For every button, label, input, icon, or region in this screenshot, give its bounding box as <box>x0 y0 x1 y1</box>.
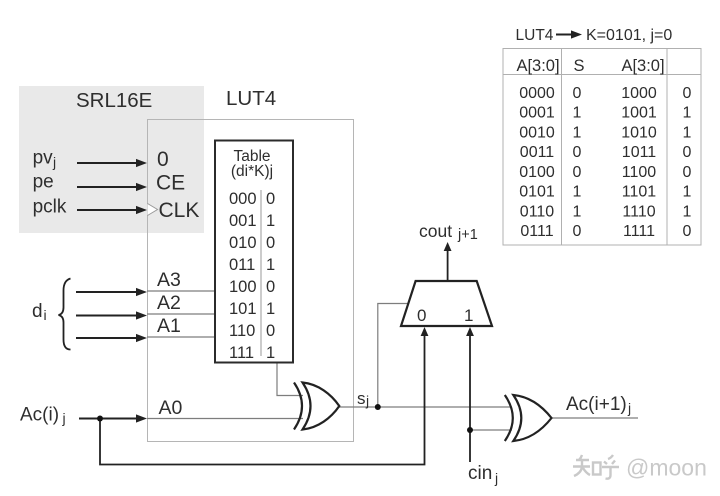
svg-text:0: 0 <box>683 164 692 181</box>
svg-text:0011: 0011 <box>520 144 555 161</box>
svg-text:011: 011 <box>229 256 255 274</box>
svg-text:100: 100 <box>229 278 257 296</box>
svg-text:0: 0 <box>573 164 582 181</box>
svg-text:(di*K)j: (di*K)j <box>231 163 273 180</box>
svg-text:001: 001 <box>229 212 257 230</box>
svg-text:pv: pv <box>33 148 54 169</box>
svg-text:pclk: pclk <box>33 197 67 218</box>
svg-text:0: 0 <box>266 278 275 296</box>
svg-text:1010: 1010 <box>621 124 657 141</box>
svg-text:0: 0 <box>266 234 275 252</box>
svg-text:j+1: j+1 <box>457 227 478 243</box>
svg-text:1: 1 <box>266 300 275 318</box>
svg-text:A2: A2 <box>157 292 181 314</box>
svg-text:1: 1 <box>266 212 275 230</box>
svg-text:1: 1 <box>683 203 692 220</box>
svg-text:1011: 1011 <box>622 144 657 161</box>
svg-text:0: 0 <box>573 223 582 240</box>
svg-text:1: 1 <box>266 344 275 362</box>
svg-text:0: 0 <box>157 148 169 171</box>
svg-text:@moon: @moon <box>626 455 707 481</box>
svg-text:0: 0 <box>417 306 426 325</box>
svg-text:0111: 0111 <box>520 223 553 240</box>
svg-text:000: 000 <box>229 190 257 208</box>
svg-text:A3: A3 <box>157 269 181 291</box>
svg-text:1: 1 <box>683 124 692 141</box>
svg-text:A[3:0]: A[3:0] <box>621 57 664 75</box>
svg-text:A[3:0]: A[3:0] <box>516 57 559 75</box>
svg-text:0: 0 <box>683 144 692 161</box>
svg-text:K=0101, j=0: K=0101, j=0 <box>586 27 672 44</box>
svg-text:1110: 1110 <box>622 203 655 220</box>
svg-text:1: 1 <box>683 184 692 201</box>
svg-text:cin: cin <box>468 463 492 484</box>
svg-text:1: 1 <box>573 203 582 220</box>
svg-text:1: 1 <box>573 124 582 141</box>
svg-text:Ac(i): Ac(i) <box>20 405 59 426</box>
svg-text:j: j <box>52 154 56 170</box>
svg-text:1: 1 <box>573 105 582 122</box>
svg-text:CE: CE <box>156 172 185 195</box>
svg-text:0100: 0100 <box>519 164 555 181</box>
svg-text:S: S <box>573 57 584 75</box>
svg-text:1001: 1001 <box>621 105 657 122</box>
svg-text:0: 0 <box>573 85 582 102</box>
svg-text:A1: A1 <box>157 315 181 337</box>
svg-text:1100: 1100 <box>622 164 657 181</box>
svg-text:LUT4: LUT4 <box>226 87 276 110</box>
svg-text:010: 010 <box>229 234 257 252</box>
svg-text:j: j <box>365 393 369 409</box>
svg-text:1111: 1111 <box>623 223 655 240</box>
svg-text:0010: 0010 <box>519 124 555 141</box>
svg-text:0: 0 <box>683 223 692 240</box>
svg-text:0001: 0001 <box>519 105 555 122</box>
svg-text:0: 0 <box>683 85 692 102</box>
svg-text:d: d <box>32 301 43 322</box>
svg-text:SRL16E: SRL16E <box>76 89 152 112</box>
svg-text:A0: A0 <box>159 397 183 419</box>
svg-text:pe: pe <box>33 172 54 193</box>
svg-text:111: 111 <box>229 344 254 362</box>
svg-text:j: j <box>62 410 66 426</box>
svg-text:j: j <box>627 400 631 416</box>
svg-text:Ac(i+1): Ac(i+1) <box>566 394 627 415</box>
svg-text:0: 0 <box>266 322 275 340</box>
svg-text:101: 101 <box>229 300 257 318</box>
svg-text:0000: 0000 <box>519 85 555 102</box>
svg-text:LUT4: LUT4 <box>516 27 554 44</box>
svg-text:0110: 0110 <box>520 203 555 220</box>
svg-text:1: 1 <box>266 256 275 274</box>
svg-text:1000: 1000 <box>621 85 657 102</box>
svg-text:j: j <box>494 470 498 486</box>
svg-text:cout: cout <box>419 221 452 241</box>
svg-text:s: s <box>357 389 366 408</box>
svg-text:0: 0 <box>266 190 275 208</box>
svg-text:110: 110 <box>229 322 255 340</box>
svg-text:i: i <box>44 307 47 323</box>
svg-text:1: 1 <box>573 184 582 201</box>
svg-text:1: 1 <box>464 306 473 325</box>
svg-text:1: 1 <box>683 105 692 122</box>
svg-text:0101: 0101 <box>519 184 555 201</box>
svg-text:1101: 1101 <box>622 184 657 201</box>
svg-text:CLK: CLK <box>159 199 200 222</box>
svg-text:0: 0 <box>573 144 582 161</box>
